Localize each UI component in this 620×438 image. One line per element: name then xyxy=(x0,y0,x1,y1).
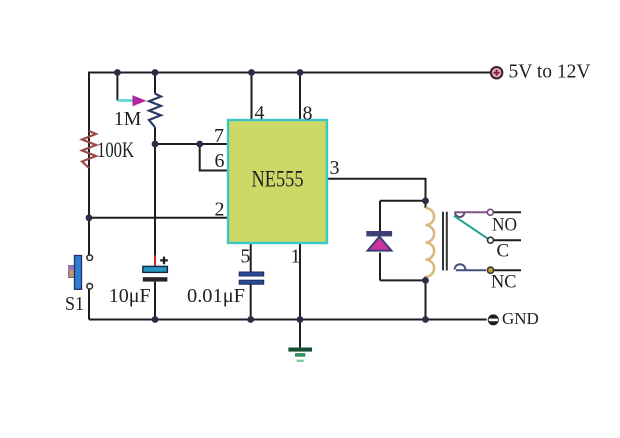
svg-text:10μF: 10μF xyxy=(109,285,151,307)
svg-text:NO: NO xyxy=(492,215,517,236)
svg-text:1: 1 xyxy=(291,246,301,268)
svg-text:6: 6 xyxy=(215,150,225,172)
svg-text:100K: 100K xyxy=(97,137,134,162)
svg-text:NC: NC xyxy=(491,272,517,293)
svg-text:4: 4 xyxy=(255,102,265,124)
svg-text:5V to 12V: 5V to 12V xyxy=(509,61,592,83)
svg-text:NE555: NE555 xyxy=(252,167,304,192)
svg-text:3: 3 xyxy=(330,157,340,179)
svg-text:C: C xyxy=(497,241,510,262)
svg-text:1M: 1M xyxy=(114,108,142,130)
svg-text:GND: GND xyxy=(502,309,539,328)
svg-text:7: 7 xyxy=(214,125,224,147)
svg-text:0.01μF: 0.01μF xyxy=(187,285,245,307)
svg-text:5: 5 xyxy=(240,246,250,268)
svg-text:2: 2 xyxy=(215,199,225,221)
svg-text:S1: S1 xyxy=(65,293,84,315)
svg-text:8: 8 xyxy=(303,103,313,125)
